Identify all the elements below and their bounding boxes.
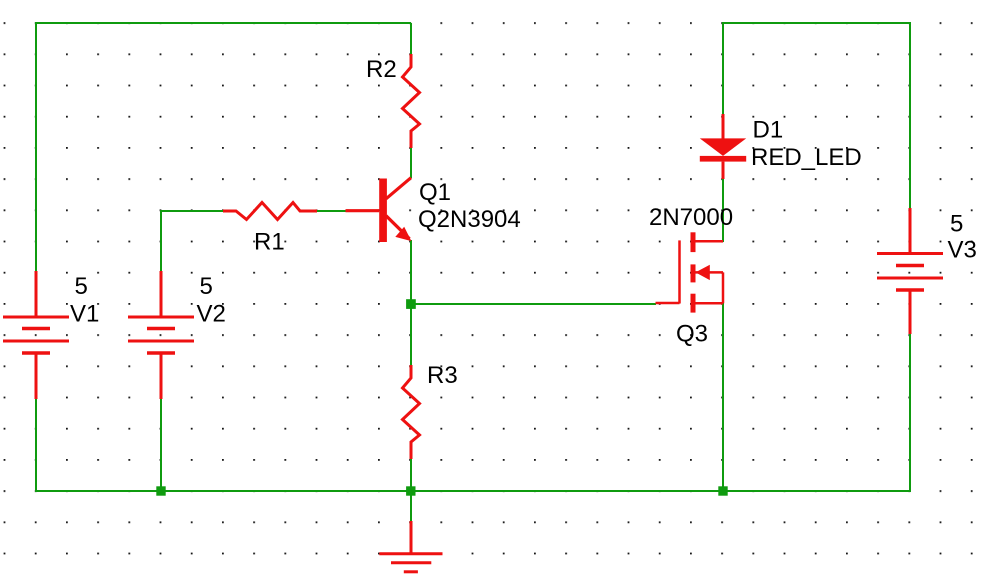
wire R2 top stub xyxy=(410,23,412,54)
svg-text:R1: R1 xyxy=(254,228,285,255)
wire R1 right to Q1 base xyxy=(316,210,346,212)
wire V2 top vertical xyxy=(160,210,162,271)
voltage source V1 xyxy=(3,271,69,399)
svg-text:5: 5 xyxy=(200,273,213,300)
wire D1 top vertical xyxy=(722,22,724,114)
voltage source V3 xyxy=(877,208,943,334)
svg-text:5: 5 xyxy=(950,211,963,238)
wire R1 left to V2 top node xyxy=(161,210,224,212)
svg-text:V1: V1 xyxy=(70,301,99,328)
junction R3/bottom rail xyxy=(406,486,415,495)
wire V3 bottom vertical xyxy=(909,334,911,492)
transistor Q3 (NMOS) xyxy=(656,232,724,312)
wire top-right horizontal (D1 top to V3 top) xyxy=(723,22,910,24)
diode D1 (LED) xyxy=(700,114,746,179)
svg-text:Q1: Q1 xyxy=(419,179,451,206)
junction emitter node xyxy=(406,299,416,309)
voltage source V2 xyxy=(128,271,194,399)
junction V2/bottom rail xyxy=(156,486,165,495)
wire top-left horizontal (V1 top to R2 top) xyxy=(35,22,411,24)
wire middle horizontal (emitter node to Q3 gate) xyxy=(411,303,656,305)
svg-text:R3: R3 xyxy=(427,362,458,389)
wire left vertical (top corner down to V1) xyxy=(35,22,37,271)
svg-text:RED_LED: RED_LED xyxy=(751,144,862,171)
wire V3 top vertical xyxy=(909,22,911,208)
wire bottom rail xyxy=(35,490,910,492)
wire V1 bottom xyxy=(35,399,37,492)
transistor Q1 (NPN) xyxy=(346,178,412,242)
resistor R1 xyxy=(223,203,317,220)
svg-text:V2: V2 xyxy=(197,301,226,328)
wire R3 bottom to bottom rail and ground stem xyxy=(410,459,412,521)
resistor R3 xyxy=(403,365,420,459)
svg-text:V3: V3 xyxy=(948,237,977,264)
wire V2 bottom xyxy=(160,399,162,491)
svg-text:2N7000: 2N7000 xyxy=(649,204,733,231)
svg-text:R2: R2 xyxy=(366,56,397,83)
svg-text:Q2N3904: Q2N3904 xyxy=(418,206,521,233)
junction Q3 source/bottom rail xyxy=(718,486,727,495)
svg-text:Q3: Q3 xyxy=(676,321,708,348)
wire Q1 emitter down to R3 top xyxy=(410,240,412,365)
wire Q3 source down to bottom rail xyxy=(722,303,724,491)
wire D1 bottom to Q3 drain xyxy=(722,178,724,242)
resistor R2 xyxy=(403,54,420,148)
ground xyxy=(379,521,442,572)
svg-text:D1: D1 xyxy=(753,117,784,144)
wire R2 bottom to Q1 collector xyxy=(410,148,412,178)
svg-text:5: 5 xyxy=(75,273,88,300)
